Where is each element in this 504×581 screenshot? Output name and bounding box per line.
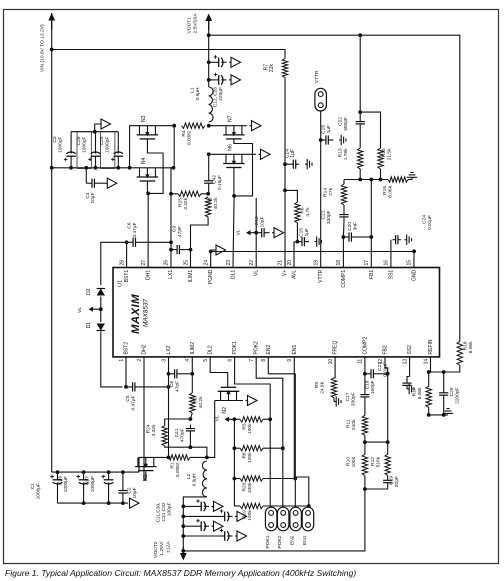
capacitor output bank 1 (181, 505, 185, 509)
capacitor output bank 4 (181, 534, 185, 538)
svg-text:5: 5 (203, 359, 209, 362)
wire BST1 pin up (126, 242, 128, 267)
svg-text:3nF: 3nF (353, 222, 359, 230)
svg-text:VTTR: VTTR (318, 269, 324, 282)
svg-text:C4: C4 (85, 192, 91, 198)
transistor N4 (high-side 1b) (137, 176, 158, 178)
resistor R25 (171, 193, 178, 195)
wire VIN bottom rail (52, 471, 139, 473)
svg-text:VL: VL (236, 229, 242, 235)
wire FREQ pin down (334, 357, 335, 378)
resistor R7 (282, 59, 287, 78)
ground C15 (bar) (315, 241, 317, 243)
svg-text:18: 18 (336, 260, 342, 266)
capacitor C16 (321, 139, 326, 141)
svg-text:VOUT2: VOUT2 (153, 541, 159, 558)
wire POK1 pin jog (235, 357, 271, 507)
wire bottom ground rail (58, 502, 129, 504)
svg-text:C19: C19 (389, 476, 395, 485)
svg-text:0.9µH: 0.9µH (195, 87, 201, 100)
ground R9 (bar) (333, 398, 335, 402)
resistor R3 (205, 197, 210, 217)
node L2 top (205, 456, 209, 460)
svg-text:470pF: 470pF (180, 428, 186, 442)
svg-text:R3: R3 (208, 197, 214, 203)
wire divider feed down (359, 35, 361, 112)
svg-text:0.47µF: 0.47µF (132, 222, 138, 237)
ground C12 (triangle) (229, 61, 231, 63)
svg-text:0.0082: 0.0082 (187, 130, 193, 145)
resistor R5 pullup (240, 417, 263, 422)
wire COMP1 to pin (342, 237, 344, 268)
svg-text:N6: N6 (228, 144, 234, 151)
svg-text:40.2k: 40.2k (213, 197, 219, 209)
wire C9 to ILIM1 line (186, 249, 191, 251)
svg-text:C15: C15 (299, 228, 305, 237)
node C5 (124, 385, 128, 389)
node VOUT1 sense tap (207, 33, 211, 37)
svg-text:LX2: LX2 (166, 345, 172, 354)
wire R3 to ILIM1 pin (191, 217, 209, 267)
svg-text:1000µF: 1000µF (63, 476, 69, 492)
wire DH2 pin down to N1 gate (144, 357, 146, 480)
svg-text:100µF: 100µF (167, 502, 173, 516)
svg-text:R13: R13 (338, 148, 344, 157)
node V+ / R6 branch (283, 189, 287, 193)
resistor R6 (295, 202, 300, 223)
svg-text:1000µF: 1000µF (82, 136, 88, 152)
node L1 input (207, 124, 211, 128)
svg-text:R9: R9 (314, 382, 320, 388)
node divider top (358, 110, 362, 114)
svg-text:1.78k: 1.78k (343, 148, 349, 160)
node C9 left (169, 248, 173, 252)
node ILIM1 junction (206, 192, 210, 196)
svg-text:1000µF: 1000µF (90, 476, 96, 492)
svg-text:0.01µF: 0.01µF (427, 215, 433, 230)
wire DH1 to gates (147, 193, 149, 267)
svg-text:22: 22 (249, 260, 255, 266)
svg-text:AVL: AVL (292, 270, 298, 279)
resistor R24 (162, 426, 167, 447)
capacitor C21 (343, 205, 345, 211)
svg-text:COMP2: COMP2 (362, 337, 368, 355)
wire R7 to V+ pin (284, 78, 286, 268)
wire bulk-cap ground rail (71, 131, 118, 133)
svg-text:8.06k: 8.06k (388, 185, 394, 197)
svg-text:2: 2 (137, 359, 143, 362)
wire N3 gate (147, 139, 163, 194)
svg-text:EN2: EN2 (266, 345, 272, 355)
svg-text:47pF: 47pF (177, 226, 183, 237)
svg-text:U1: U1 (118, 280, 124, 287)
svg-text:13: 13 (402, 359, 408, 365)
svg-text:R15: R15 (381, 148, 387, 157)
transistor N6 (low-side 1b) (223, 163, 244, 165)
wire N6 through-line (209, 153, 256, 155)
svg-text:N3: N3 (141, 115, 147, 122)
wire SS2 pin down (409, 357, 411, 377)
resistor R2 (190, 393, 195, 413)
svg-text:LX1: LX1 (168, 270, 174, 279)
svg-text:0.15µF: 0.15µF (217, 175, 223, 190)
wire N2 drain to L2 node (207, 401, 215, 458)
svg-text:FREQ: FREQ (333, 341, 339, 355)
resistor R1 (sense) (169, 455, 191, 460)
svg-text:100k: 100k (351, 456, 357, 467)
wire R18 to REFIN (431, 365, 460, 372)
resistor R17 (428, 372, 430, 386)
svg-text:21: 21 (277, 260, 283, 266)
transistor N1 (high-side 2) (135, 466, 156, 468)
svg-text:MAX8537: MAX8537 (143, 298, 150, 327)
capacitor C42 (208, 154, 210, 176)
svg-text:POK1: POK1 (232, 341, 238, 355)
svg-text:VOUT1: VOUT1 (187, 17, 193, 34)
svg-text:C22: C22 (338, 117, 344, 126)
svg-text:R10: R10 (346, 457, 352, 466)
wire C8 to ILIM2 line (183, 373, 192, 375)
svg-text:4.7k: 4.7k (305, 207, 311, 217)
ground C24 (bar) (405, 239, 407, 241)
connector EN2 (290, 507, 302, 531)
svg-text:C13: C13 (254, 216, 260, 225)
svg-text:C1: C1 (30, 483, 36, 489)
wire N4 gate (146, 181, 148, 193)
node FB2 upper (386, 372, 390, 376)
wire R15 jog (360, 112, 380, 148)
svg-text:FB1: FB1 (369, 270, 375, 279)
svg-text:47pF: 47pF (175, 381, 181, 392)
svg-text:C27: C27 (85, 476, 91, 485)
node C16 (319, 138, 323, 142)
svg-text:0.0082: 0.0082 (175, 462, 181, 477)
connector POK2 (277, 507, 289, 531)
svg-text:8.06k: 8.06k (468, 341, 474, 353)
svg-text:L2: L2 (186, 473, 192, 479)
capacitor C18 (365, 373, 371, 375)
node REFIN/C25 (442, 370, 446, 374)
capacitor C25 (443, 372, 445, 389)
diode D1 (bootstrap BST2) (97, 324, 105, 331)
svg-text:510k: 510k (376, 456, 382, 467)
wire VL pin up (255, 198, 257, 268)
svg-text:C5: C5 (125, 395, 131, 401)
wire GND pin stub (413, 251, 415, 267)
capacitor C17 (364, 391, 366, 395)
node C18 left (363, 372, 367, 376)
wire N6 gate (233, 168, 235, 196)
svg-text:1µF: 1µF (326, 125, 332, 133)
svg-text:ILIM1: ILIM1 (188, 270, 194, 283)
svg-text:100k: 100k (247, 510, 253, 521)
svg-text:C12, C26: C12, C26 (213, 87, 219, 108)
capacitor C41 (189, 425, 191, 429)
wire BST2 pin down (125, 357, 127, 387)
node ILIM2 junction (190, 413, 192, 419)
capacitor C19 (387, 477, 389, 480)
svg-text:POK2: POK2 (254, 341, 260, 355)
node VIN / V+ branch (50, 48, 54, 52)
svg-text:2200pF: 2200pF (455, 387, 461, 403)
svg-text:FB2: FB2 (383, 345, 389, 354)
svg-text:C18: C18 (365, 380, 371, 389)
wire DL1 to gates (233, 196, 234, 268)
svg-text:R18: R18 (463, 341, 469, 350)
wire SS1 pin up (390, 240, 392, 268)
wire R6 to AVL pin (294, 223, 297, 268)
resistor R4 (sense) (182, 123, 205, 128)
capacitor C13 (256, 232, 262, 234)
node DH1 gate junction (146, 192, 150, 196)
ground C23 (bar) (407, 388, 409, 390)
inductor L1 (209, 87, 213, 122)
wire BST1 to bootstrap diode D2 (101, 242, 127, 285)
transistor N2 (low-side 2) (218, 390, 239, 392)
svg-text:20: 20 (287, 260, 293, 266)
svg-text:R4: R4 (181, 130, 187, 136)
svg-text:21.5k: 21.5k (387, 148, 393, 160)
svg-text:POK2: POK2 (277, 535, 283, 548)
svg-text:VL: VL (77, 307, 83, 313)
wire VTT sense rail (183, 489, 365, 551)
svg-text:COMP1: COMP1 (341, 270, 347, 288)
svg-text:C20: C20 (347, 222, 353, 231)
wire N3 drain from VIN rail (130, 126, 175, 168)
capacitor C12 (output) (207, 60, 211, 64)
svg-text:D1: D1 (86, 322, 92, 329)
wire R24 to L2 node (165, 446, 191, 447)
svg-text:C31,C32: C31,C32 (161, 502, 167, 521)
node VL bypass (254, 231, 258, 235)
svg-text:28: 28 (119, 260, 125, 266)
wire pullup common (234, 419, 240, 506)
svg-text:R19: R19 (242, 510, 248, 519)
svg-text:C16: C16 (321, 125, 327, 134)
svg-text:R1: R1 (170, 462, 176, 468)
wire VIN bulk-cap rail (52, 167, 130, 169)
svg-text:3: 3 (161, 359, 167, 362)
svg-text:VL: VL (254, 270, 260, 276)
wire mid to FB2 (365, 441, 388, 443)
ground input caps (triangle) (95, 124, 101, 132)
wire C21 to COMP1 (342, 221, 345, 237)
wire FB1 node rail (344, 179, 388, 181)
wire EN2 pin jog (268, 357, 295, 507)
svg-text:PGND: PGND (208, 269, 214, 284)
svg-text:D2: D2 (86, 288, 92, 295)
svg-text:±12A: ±12A (165, 541, 171, 553)
capacitor C6 (127, 241, 134, 243)
diode D2 (bootstrap BST1) (97, 289, 105, 296)
wire L2 to VOUT2 (183, 497, 207, 558)
svg-text:40.2k: 40.2k (198, 396, 204, 408)
svg-text:C11,C30,: C11,C30, (156, 503, 162, 523)
svg-text:R12: R12 (370, 457, 376, 466)
wire N1 through-line (139, 457, 169, 472)
capacitor C3 (70, 156, 72, 168)
svg-text:VL: VL (215, 415, 221, 421)
wire VOUT1 rail (208, 17, 210, 87)
svg-text:C6: C6 (127, 222, 133, 228)
svg-text:R16: R16 (382, 186, 388, 195)
svg-text:C42: C42 (212, 175, 218, 184)
svg-text:C17: C17 (345, 392, 351, 401)
VL net arrow at diodes (99, 307, 103, 311)
node LX2/R1 (167, 456, 171, 460)
node LX1 (172, 124, 176, 128)
wire N7 through-line from LX1 (209, 125, 247, 127)
node BST1 cap (125, 240, 129, 244)
svg-text:10µF: 10µF (260, 216, 266, 227)
wire VIN vertical main (51, 13, 53, 472)
ground C4 (triangle) (100, 182, 107, 184)
capacitor C1 (56, 470, 60, 474)
svg-text:1: 1 (119, 359, 125, 362)
capacitor C24 (393, 239, 396, 241)
wire ILIM2 pin down (191, 357, 193, 393)
svg-text:C29: C29 (99, 136, 105, 145)
svg-text:14: 14 (423, 359, 429, 365)
IC U1 MAX8537 body (113, 268, 440, 357)
ground PGND pin (triangle) (211, 250, 216, 268)
svg-text:L1: L1 (190, 87, 196, 93)
wire C6 to LX1 line (142, 241, 171, 243)
wire DL2 to N2 gate (210, 357, 228, 387)
node C8 left (167, 372, 171, 376)
svg-text:POK1: POK1 (265, 535, 271, 548)
svg-text:100k: 100k (247, 423, 253, 434)
capacitor C26 (output) (207, 78, 211, 82)
svg-text:100k: 100k (247, 482, 253, 493)
svg-text:SS1: SS1 (388, 270, 394, 280)
svg-text:R5: R5 (242, 423, 248, 429)
wire to L2 top (190, 447, 207, 457)
svg-text:BST1: BST1 (124, 270, 130, 283)
wire N7 gate jog (234, 139, 253, 196)
svg-text:8.06k: 8.06k (417, 387, 423, 399)
svg-text:3.32k: 3.32k (183, 197, 189, 209)
wire REFIN pin stub (430, 357, 432, 372)
svg-text:N1: N1 (143, 474, 149, 481)
node C20 to FB1 (369, 235, 373, 239)
wire branch to R6 (285, 190, 297, 202)
wire D1 to BST2 row (101, 332, 123, 387)
svg-text:N2: N2 (222, 407, 228, 414)
svg-text:C23: C23 (377, 362, 383, 371)
capacitor C22 (359, 117, 361, 122)
resistor R12 (385, 454, 390, 475)
wire R24 jog (165, 419, 191, 426)
svg-text:6: 6 (227, 359, 233, 362)
resistor R13 (358, 148, 363, 169)
svg-text:330pF: 330pF (351, 392, 357, 406)
node VTT sense join (181, 549, 185, 553)
svg-text:DH2: DH2 (142, 344, 148, 354)
wire LX1 branch down to pin LX1 (171, 168, 174, 268)
svg-text:24.9k: 24.9k (320, 381, 326, 393)
svg-text:1µF: 1µF (290, 149, 296, 158)
svg-text:SS2: SS2 (407, 345, 413, 355)
wire FB2 pin jog (385, 357, 388, 442)
wire LX2 pin down (168, 357, 170, 458)
svg-text:9: 9 (287, 359, 293, 362)
connector EN1 (302, 507, 314, 531)
svg-text:25: 25 (183, 260, 189, 266)
ground REFIN (bar) (443, 412, 453, 414)
resistor R18 (457, 341, 462, 365)
capacitor output bank 3 (181, 524, 185, 528)
capacitor C15 (297, 241, 302, 243)
svg-text:150pF: 150pF (370, 380, 376, 394)
svg-text:1.25V/: 1.25V/ (159, 541, 165, 556)
wire C18 to FB2 line (380, 373, 388, 375)
ground C13 (triangle) (272, 232, 274, 234)
svg-text:DL2: DL2 (208, 345, 214, 354)
svg-text:EN1: EN1 (292, 345, 298, 355)
ground C14 (bar) (305, 163, 307, 165)
wire V+ branch to R7 (52, 50, 285, 59)
wire FB1 down to pin (370, 180, 372, 268)
svg-text:0.9µH: 0.9µH (192, 473, 198, 486)
ground C16 (bar) (339, 139, 341, 141)
svg-text:ILIM2: ILIM2 (190, 342, 196, 355)
connector POK1 (265, 507, 277, 531)
wire C5 to LX2 line (142, 386, 169, 388)
wire N4 through-line (parallel high-side) (130, 167, 174, 169)
svg-text:680pF: 680pF (343, 117, 349, 131)
VIN input net arrow (51, 21, 53, 31)
resistor R20 pullup (233, 477, 237, 481)
node AVL bypass (296, 240, 300, 244)
svg-text:24: 24 (204, 260, 210, 266)
svg-text:R25: R25 (178, 198, 184, 207)
svg-text:R24: R24 (146, 424, 152, 433)
capacitor C26b (82, 470, 86, 474)
resistor R11 (364, 401, 366, 415)
wire EN1 pin jog (294, 357, 309, 507)
node GND pin (412, 249, 416, 253)
svg-text:23: 23 (226, 260, 232, 266)
svg-text:26: 26 (163, 260, 169, 266)
wire VTTR pin up (320, 111, 322, 268)
svg-text:10: 10 (328, 359, 334, 365)
svg-text:7: 7 (249, 359, 255, 362)
node R25 tap (169, 192, 173, 196)
wire VDDQ sense to right side (209, 35, 460, 341)
ground N6 source (triangle) (259, 153, 261, 155)
capacitor C20 (343, 236, 349, 238)
capacitor C23 (406, 380, 408, 384)
svg-text:4: 4 (185, 359, 191, 362)
connector VTTR (test point) (315, 88, 327, 111)
resistor R9 (331, 378, 336, 398)
svg-text:27: 27 (141, 260, 147, 266)
svg-text:8: 8 (261, 359, 267, 362)
capacitor C28 (optional) (95, 156, 97, 168)
node C14 tap (283, 162, 287, 166)
node VDDQ divider feed (358, 33, 362, 37)
svg-text:V+: V+ (282, 270, 288, 276)
svg-text:10µF: 10µF (90, 192, 96, 203)
node C41 bottom (189, 445, 193, 449)
svg-text:R2: R2 (193, 396, 199, 402)
svg-text:0.47µF: 0.47µF (131, 395, 137, 410)
resistor R10 (362, 454, 367, 475)
svg-text:C26: C26 (58, 476, 64, 485)
VOUT2 output arrow (182, 547, 184, 553)
ground bottom rail (triangle) (130, 498, 140, 508)
